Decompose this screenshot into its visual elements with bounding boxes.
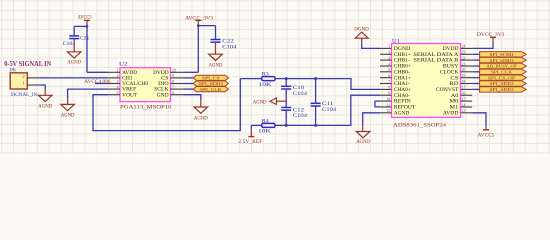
svg-text:ADS8361_SSOP24: ADS8361_SSOP24 bbox=[393, 123, 447, 129]
svg-text:3: 3 bbox=[388, 56, 390, 60]
svg-text:SPI_SIMO: SPI_SIMO bbox=[490, 58, 515, 63]
svg-text:14: 14 bbox=[462, 103, 466, 107]
port SPI_SDIO row8 bbox=[472, 88, 479, 90]
svg-text:SPI_SDIO: SPI_SDIO bbox=[199, 81, 224, 86]
power port AGND arrow bbox=[270, 98, 277, 105]
svg-text:AGND: AGND bbox=[394, 111, 410, 116]
svg-text:C10: C10 bbox=[293, 86, 305, 91]
U2 pin row 3 bbox=[108, 83, 120, 85]
U1 pin row 5 bbox=[380, 71, 392, 73]
port SPI_SDIO bbox=[183, 83, 193, 85]
port SPI_SDIO row7 bbox=[472, 83, 479, 85]
port SPI_CLK bbox=[183, 88, 193, 90]
svg-text:6: 6 bbox=[172, 91, 174, 95]
capacitor C22 bbox=[211, 39, 221, 41]
svg-text:C104: C104 bbox=[322, 108, 337, 113]
capacitor C11 bbox=[315, 79, 317, 104]
ground AGND under VREF bbox=[61, 104, 75, 110]
wire C12 down bbox=[285, 110, 287, 125]
svg-text:10K: 10K bbox=[258, 130, 272, 135]
svg-text:SERIAL DATA B: SERIAL DATA B bbox=[413, 59, 458, 64]
ground AGND under C22 bbox=[209, 54, 223, 60]
svg-text:7: 7 bbox=[388, 80, 390, 84]
U1 pin row 11 bbox=[380, 106, 392, 108]
svg-text:10: 10 bbox=[386, 97, 390, 101]
svg-text:5: 5 bbox=[117, 91, 119, 95]
svg-text:C21: C21 bbox=[80, 37, 90, 42]
wire R4 left to 2.5V_REF bbox=[251, 124, 261, 126]
U1 pin row 9 bbox=[380, 94, 392, 96]
wire AVCC_3V3 to C22 bbox=[198, 25, 215, 27]
svg-text:C104: C104 bbox=[293, 92, 308, 97]
svg-text:R4: R4 bbox=[262, 119, 270, 124]
svg-text:1: 1 bbox=[23, 80, 25, 85]
port SPI_SIMO row3 bbox=[472, 59, 479, 61]
svg-text:A0: A0 bbox=[451, 94, 459, 99]
svg-text:AGND: AGND bbox=[356, 139, 370, 145]
svg-text:3: 3 bbox=[117, 80, 119, 84]
svg-text:C12: C12 bbox=[293, 108, 305, 113]
svg-text:4: 4 bbox=[388, 62, 390, 66]
U2 pin row 5 bbox=[108, 94, 120, 96]
svg-text:SPI_CS_OP: SPI_CS_OP bbox=[488, 75, 516, 80]
port SPI_CS bbox=[183, 77, 193, 79]
svg-text:BUSY: BUSY bbox=[443, 65, 459, 70]
svg-text:AGND: AGND bbox=[194, 116, 208, 122]
U1 pin row 10 bbox=[380, 100, 392, 102]
connector P6 bbox=[10, 73, 27, 89]
svg-text:SPI_SOMI: SPI_SOMI bbox=[490, 52, 515, 57]
svg-text:AVCC5: AVCC5 bbox=[478, 132, 495, 138]
svg-text:REFOUT: REFOUT bbox=[394, 106, 416, 111]
U1 pin row 1 bbox=[380, 47, 392, 49]
svg-text:11: 11 bbox=[387, 103, 391, 107]
svg-text:DGND: DGND bbox=[394, 47, 411, 52]
svg-text:17: 17 bbox=[462, 86, 466, 90]
wire DVCC_3V3 to U1 DVDD bbox=[472, 43, 493, 49]
ground AGND under C21 bbox=[67, 52, 81, 58]
svg-text:4: 4 bbox=[117, 85, 119, 89]
svg-text:M0: M0 bbox=[449, 100, 459, 105]
U1 pin row 12 bbox=[380, 112, 392, 114]
svg-text:SPI_CS: SPI_CS bbox=[202, 76, 220, 81]
op-amp U2 body bbox=[120, 68, 171, 102]
wire AVCC5 to U2 AVDD bbox=[86, 24, 88, 72]
svg-text:SERIAL DATA A: SERIAL DATA A bbox=[413, 53, 459, 58]
svg-text:REFIN: REFIN bbox=[394, 100, 412, 105]
P6 pin 2 bbox=[27, 77, 39, 79]
svg-text:7: 7 bbox=[172, 85, 174, 89]
svg-text:SIGNAL_IN: SIGNAL_IN bbox=[11, 92, 38, 98]
svg-text:AGND: AGND bbox=[67, 60, 81, 66]
svg-text:21: 21 bbox=[462, 62, 466, 66]
svg-text:AVDD: AVDD bbox=[122, 71, 138, 76]
svg-text:VOUT: VOUT bbox=[122, 93, 137, 98]
svg-text:VREF: VREF bbox=[122, 88, 136, 93]
svg-text:CH1: CH1 bbox=[122, 77, 133, 82]
svg-text:AGND: AGND bbox=[253, 99, 267, 105]
wire R3 left bbox=[240, 78, 261, 80]
wire U2 VOUT down bbox=[93, 79, 240, 131]
svg-text:18: 18 bbox=[462, 80, 466, 84]
port SPI_CLK row5 bbox=[472, 71, 479, 73]
svg-text:15: 15 bbox=[462, 97, 466, 101]
svg-text:2: 2 bbox=[388, 51, 390, 55]
wire U2 VREF to ground bbox=[68, 89, 108, 98]
wire P6 pin1 to ground bbox=[39, 85, 45, 89]
capacitor C10 bbox=[285, 79, 287, 87]
U1 pin row 3 bbox=[380, 59, 392, 61]
svg-text:9: 9 bbox=[388, 92, 390, 96]
svg-text:DVDD: DVDD bbox=[153, 71, 169, 76]
port AD_BUSY_OP row4 bbox=[472, 65, 479, 67]
svg-text:13: 13 bbox=[462, 109, 466, 113]
svg-text:12: 12 bbox=[386, 109, 390, 113]
svg-text:PGA113_MSOP10: PGA113_MSOP10 bbox=[120, 105, 172, 111]
port SPI_CS_OP row6 bbox=[472, 77, 479, 79]
wire P6 pin2 to U2 CH1 bbox=[39, 77, 108, 79]
wire REFIN REFOUT loop bbox=[375, 101, 380, 107]
svg-text:2: 2 bbox=[23, 73, 25, 78]
U1 pin row 4 bbox=[380, 65, 392, 67]
svg-text:RD: RD bbox=[449, 82, 459, 87]
svg-text:9: 9 bbox=[172, 74, 174, 78]
capacitor C21 bbox=[69, 35, 79, 37]
svg-text:SPI_SDIO: SPI_SDIO bbox=[490, 87, 515, 92]
svg-text:GND: GND bbox=[157, 93, 170, 98]
svg-text:CS: CS bbox=[450, 76, 458, 81]
svg-text:R3: R3 bbox=[262, 72, 270, 77]
U2 pin row 4 bbox=[108, 88, 120, 90]
power port 2.5V_REF bbox=[250, 129, 252, 136]
svg-text:AGND: AGND bbox=[209, 63, 223, 69]
svg-text:10: 10 bbox=[172, 69, 176, 73]
svg-text:2: 2 bbox=[117, 74, 119, 78]
svg-text:5: 5 bbox=[388, 68, 390, 72]
wire C10 to C12 bbox=[285, 89, 287, 108]
svg-text:CONVST: CONVST bbox=[436, 88, 459, 93]
svg-text:CHB0-: CHB0- bbox=[394, 70, 410, 75]
U2 pin row 2 bbox=[108, 77, 120, 79]
wire U1 AVDD to AVCC5 bbox=[472, 113, 486, 127]
U2 pin row 1 bbox=[108, 71, 120, 73]
wire AVCC_3V3 to U2 DVDD bbox=[197, 26, 199, 73]
ground AGND under U1 bbox=[356, 132, 370, 138]
svg-text:19: 19 bbox=[462, 74, 466, 78]
svg-text:U2: U2 bbox=[119, 62, 128, 68]
svg-text:DIO: DIO bbox=[158, 82, 169, 87]
U1 pin row 7 bbox=[380, 83, 392, 85]
svg-text:23: 23 bbox=[462, 51, 466, 55]
wire R4 right to U1 CHA0- bbox=[275, 95, 380, 125]
ground AGND under P6 bbox=[38, 95, 52, 101]
svg-text:CS: CS bbox=[161, 77, 169, 82]
svg-text:8: 8 bbox=[388, 86, 390, 90]
svg-text:6: 6 bbox=[388, 74, 390, 78]
svg-text:20: 20 bbox=[462, 68, 466, 72]
U1 pin row 8 bbox=[380, 88, 392, 90]
power port AVCC5 bottom bbox=[483, 129, 489, 131]
wire AVCC5 to C21 bbox=[74, 25, 87, 27]
svg-text:SPI_CLK: SPI_CLK bbox=[200, 87, 222, 92]
svg-text:DVDD: DVDD bbox=[443, 47, 459, 52]
svg-text:8: 8 bbox=[172, 80, 174, 84]
svg-text:CHB1-: CHB1- bbox=[394, 59, 410, 64]
svg-text:CHB1+: CHB1+ bbox=[394, 53, 411, 58]
svg-text:C104: C104 bbox=[293, 114, 308, 119]
svg-text:2.5V_REF: 2.5V_REF bbox=[238, 139, 262, 145]
svg-text:SCLK: SCLK bbox=[154, 88, 169, 93]
ground AGND under U2 bbox=[194, 107, 208, 113]
svg-text:10K: 10K bbox=[259, 83, 273, 88]
svg-text:CHA1-: CHA1- bbox=[394, 82, 410, 87]
resistor R4 bbox=[262, 123, 276, 127]
wire U1 AGND to ground bbox=[363, 113, 380, 125]
svg-text:CHA1+: CHA1+ bbox=[394, 76, 411, 81]
svg-text:0-5V SIGNAL IN: 0-5V SIGNAL IN bbox=[4, 61, 51, 68]
wire C21 to ground bbox=[73, 39, 75, 44]
svg-text:C104: C104 bbox=[222, 45, 237, 50]
svg-text:1: 1 bbox=[117, 69, 119, 73]
svg-text:C11: C11 bbox=[322, 102, 334, 107]
wire C22 to ground bbox=[215, 42, 217, 54]
svg-text:CHA0-: CHA0- bbox=[394, 94, 410, 99]
svg-text:1: 1 bbox=[388, 45, 390, 49]
svg-text:C22: C22 bbox=[222, 39, 234, 44]
U1 pin row 2 bbox=[380, 53, 392, 55]
svg-text:AGND: AGND bbox=[38, 103, 52, 109]
adc U1 body bbox=[392, 44, 461, 118]
svg-text:CHB0+: CHB0+ bbox=[394, 65, 411, 70]
svg-text:SPI_SDIO: SPI_SDIO bbox=[490, 81, 515, 86]
svg-text:SPI_CLK: SPI_CLK bbox=[491, 70, 513, 75]
svg-text:AVDD: AVDD bbox=[443, 111, 459, 116]
wire DGND to U1 bbox=[362, 44, 380, 49]
wire U2 GND to ground bbox=[183, 95, 201, 101]
port SPI_SOMI row2 bbox=[472, 53, 479, 55]
svg-text:CHA0+: CHA0+ bbox=[394, 88, 411, 93]
wire R3 right to U1 CHA0+ bbox=[275, 79, 380, 90]
svg-text:VCAL/CH0: VCAL/CH0 bbox=[122, 82, 148, 87]
resistor R3 bbox=[262, 77, 276, 81]
U1 pin row 6 bbox=[380, 77, 392, 79]
svg-text:CLOCK: CLOCK bbox=[440, 70, 459, 75]
P6 pin 1 bbox=[27, 84, 39, 86]
svg-text:16: 16 bbox=[462, 92, 466, 96]
svg-text:M1: M1 bbox=[449, 106, 459, 111]
svg-text:AGND: AGND bbox=[61, 112, 75, 118]
svg-text:AD_BUSY_OP: AD_BUSY_OP bbox=[486, 64, 517, 69]
capacitor C12 bbox=[281, 107, 291, 109]
svg-text:22: 22 bbox=[462, 56, 466, 60]
svg-text:24: 24 bbox=[462, 45, 466, 49]
